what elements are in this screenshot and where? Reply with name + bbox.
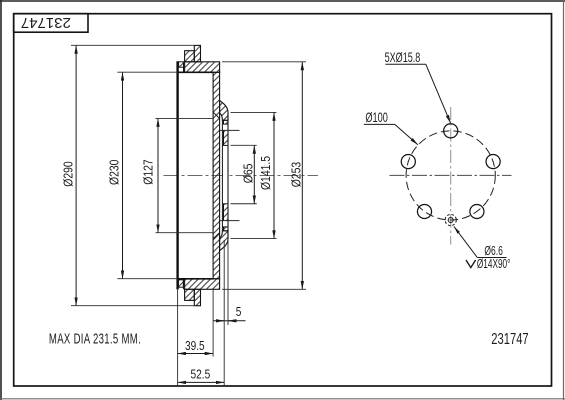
ring bottom (194, 289, 200, 305)
svg-text:Ø14X90°: Ø14X90° (477, 257, 511, 271)
step bottom (185, 289, 195, 300)
svg-text:231747: 231747 (491, 329, 528, 348)
bolt hole bottom (white) (223, 221, 229, 227)
vertical centerline (450, 107, 452, 245)
dim 5 (flange thickness) (214, 320, 246, 322)
web recess diagonal top (O127) (213, 112, 220, 118)
bolt hole lower-right (470, 204, 484, 218)
svg-text:Ø253: Ø253 (289, 161, 303, 187)
dim 39.5 (178, 353, 214, 355)
section centerline (164, 175, 319, 177)
countersink symbol (466, 260, 476, 268)
braking surface bottom line (177, 278, 213, 280)
dim O65 (253, 145, 255, 203)
bolt circle O100 (dashed) (406, 131, 495, 220)
web (213, 72, 220, 278)
ring top (O290 feature) (194, 45, 200, 61)
leader O6.6 countersink (454, 226, 477, 257)
outer image border bottom (0, 398, 565, 400)
flange plate (224, 120, 229, 231)
svg-text:Ø230: Ø230 (107, 159, 121, 185)
horizontal centerline (390, 174, 512, 176)
outer image border right (563, 0, 565, 400)
open end face (heavy) (176, 61, 178, 289)
lip bottom (179, 280, 184, 287)
dim O141.5 (273, 112, 275, 238)
svg-text:231747: 231747 (21, 14, 71, 31)
title box (14, 14, 88, 33)
flange step line (221, 120, 223, 231)
pilot hole edges (222, 144, 228, 146)
bolt hole top edges (222, 123, 228, 125)
svg-text:Ø65: Ø65 (241, 163, 255, 183)
flange bottom wedge (220, 231, 228, 251)
svg-text:5: 5 (236, 305, 242, 319)
outer image border top (0, 0, 565, 2)
crown bottom (185, 279, 220, 290)
svg-text:52.5: 52.5 (191, 367, 211, 381)
svg-text:Ø100: Ø100 (365, 111, 387, 125)
dim O230 (122, 72, 124, 279)
bolt hole upper-left (401, 155, 415, 169)
flange right face full (227, 113, 229, 239)
small hole O6.6 (448, 218, 453, 223)
bolt hole upper-right (486, 155, 500, 169)
step top (185, 51, 195, 62)
svg-text:5XØ15.8: 5XØ15.8 (385, 51, 421, 65)
svg-text:Ø290: Ø290 (62, 161, 76, 187)
flange top wedge (220, 101, 228, 121)
bolt hole top (white) (223, 124, 229, 130)
outer image border left (0, 0, 2, 400)
svg-text:39.5: 39.5 (185, 339, 205, 353)
bolt hole top (444, 124, 458, 138)
bolt hole bottom edges (220, 220, 240, 222)
groove wall top (183, 62, 185, 73)
svg-text:Ø127: Ø127 (142, 159, 156, 184)
web recess diagonal bottom (213, 233, 220, 239)
pilot hole O65 (white) (223, 145, 229, 203)
bolt hole lower-left (417, 204, 431, 218)
dim 52.5 (178, 381, 225, 383)
lip top (179, 62, 184, 67)
dim O127 (157, 118, 159, 232)
svg-text:MAX DIA 231.5 MM.: MAX DIA 231.5 MM. (49, 331, 141, 348)
braking surface top line (177, 71, 213, 73)
countersink O14 (dashed) (445, 214, 456, 225)
groove wall bottom (183, 279, 185, 290)
dim O253 (301, 62, 303, 289)
crown top (O253 surface) (185, 62, 220, 73)
dim O290 (75, 45, 77, 305)
svg-text:Ø141.5: Ø141.5 (259, 156, 273, 190)
